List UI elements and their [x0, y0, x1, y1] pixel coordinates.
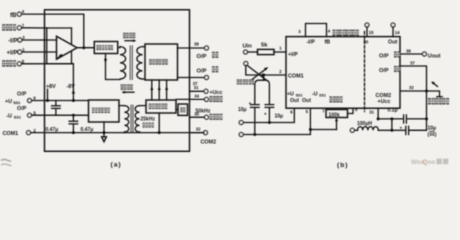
svg-text:14: 14 [395, 30, 400, 35]
wire modulator bottom to signal transformer primary bottom [106, 54, 121, 80]
node pin 31 [377, 117, 380, 120]
IC box [286, 37, 400, 109]
svg-text:Out: Out [388, 40, 397, 46]
capacitor C5 0.1u in +Ucc row [378, 115, 426, 123]
svg-text:fB: fB [10, 13, 17, 19]
wire pin6 +Uss rail [32, 100, 89, 102]
svg-text:38: 38 [406, 48, 411, 53]
svg-text:0.1μ: 0.1μ [388, 108, 398, 114]
svg-text:+U: +U [5, 99, 12, 105]
terminal COM2 pin 32 [196, 127, 216, 146]
svg-text:+I/P: +I/P [7, 51, 18, 57]
node pin 32 junction [425, 90, 428, 93]
modulator box (调制器) [94, 42, 117, 54]
wire wiper to -Uss stub [310, 129, 336, 131]
wire oscillator bottom to COM rail [158, 113, 160, 133]
wire adjustment cross diagonal 2 with arrowhead [250, 69, 266, 81]
svg-text:32: 32 [409, 85, 414, 90]
wire pin8 into op-amp surround rect bottom, on to -8V supply drop [21, 64, 73, 101]
ground tick [437, 96, 442, 98]
pot wiper arrow [336, 120, 338, 130]
svg-text:SS1: SS1 [296, 93, 303, 97]
terminal +I/P pin 1 [7, 47, 26, 57]
svg-text:(a): (a) [111, 162, 122, 169]
svg-text:-U: -U [312, 91, 318, 97]
svg-text:fB: fB [325, 40, 331, 46]
node C3 on -Uss row [253, 133, 256, 136]
wire pin 32 to COM2 vertical [400, 90, 427, 92]
svg-text:Uin: Uin [243, 44, 253, 50]
divider box (周) [178, 104, 188, 115]
svg-text:+Ucc: +Ucc [378, 99, 391, 105]
terminal -I/P pin 3 [8, 35, 25, 45]
node C4 on +Uss row [268, 121, 271, 124]
svg-text:oo: oo [428, 159, 436, 166]
resistor R1 5k [258, 43, 275, 55]
label 25kHz clock (25kHz 时钟) [141, 117, 156, 128]
wire demodulator drive 3 with up arrow [166, 80, 168, 100]
wire transformer secondary bottom to demodulator [143, 78, 146, 80]
svg-text:31: 31 [194, 85, 199, 90]
pin 8 wire from pot right [348, 108, 354, 113]
terminal O/P -Uss1 pin 5 [6, 106, 36, 120]
wire resistor to pin 1 [274, 51, 286, 53]
wire -I/P to op-amp inverting input [22, 39, 57, 41]
svg-text:+Ucc: +Ucc [210, 90, 223, 96]
svg-text:34: 34 [194, 94, 199, 99]
label O/P high (O/P 高) [197, 52, 219, 60]
svg-text:+: + [249, 101, 252, 106]
node -8V drop on +Uss rail [72, 99, 75, 102]
svg-text:COM1: COM1 [288, 73, 304, 79]
inductor L1 100uH [354, 127, 392, 131]
ground arrow under regulator [102, 137, 107, 142]
terminal In pin 15 [364, 23, 375, 46]
output ground stub [427, 91, 440, 97]
label input terminal (输入端) [237, 79, 254, 84]
svg-text:-8V: -8V [67, 84, 76, 90]
node cap C2 on COM1 rail [72, 131, 75, 134]
wire +Uss row to pin 6 [243, 108, 294, 122]
svg-text:O/P: O/P [17, 92, 27, 98]
label O/P high inside IC (O/P 高) [379, 51, 400, 59]
node COM1 junction [262, 73, 265, 76]
svg-text:Uout: Uout [428, 53, 441, 59]
node connector bottom [390, 129, 393, 132]
wire pin7 into op-amp surround rect top [21, 27, 46, 29]
svg-text:15: 15 [369, 30, 374, 35]
svg-text:O/P: O/P [379, 68, 389, 74]
svg-text:32: 32 [196, 127, 201, 132]
svg-text:10μ: 10μ [238, 107, 247, 113]
label signal (信号) with right arrow [123, 33, 136, 42]
svg-text:-U: -U [6, 114, 12, 120]
wire clock pin 35 [190, 116, 205, 118]
label zero adjust (调零) inside IC [330, 96, 343, 102]
op-amp output wire to modulator [77, 47, 94, 49]
scan artifact bottom-left [1, 159, 11, 161]
svg-text:COM2: COM2 [376, 93, 392, 99]
wire COM1 down to cap bridge [263, 75, 265, 80]
arrowhead down on modulator bottom wire [104, 59, 107, 63]
svg-text:SS1: SS1 [13, 101, 20, 105]
terminal O/P +Uss1 pin 6 [5, 92, 36, 106]
terminal clock pin 34 (时钟) [194, 94, 222, 102]
label O/P low (O/P 低) [197, 66, 219, 74]
node feedback junction at op-amp output [82, 46, 85, 49]
svg-text:10μ: 10μ [428, 125, 437, 131]
wire demodulator to O/P low pin 37 [178, 77, 205, 79]
label output ground (输出地) [428, 98, 449, 104]
svg-text:35: 35 [194, 111, 199, 116]
svg-text:-I/P: -I/P [307, 40, 316, 46]
wire +I/P to op-amp non-inverting input [22, 51, 57, 53]
svg-text:31: 31 [369, 109, 374, 114]
voltage regulator box (稳压器) [89, 100, 120, 122]
node +8V on +Uss rail [46, 99, 49, 102]
svg-text:-I/P: -I/P [8, 39, 17, 45]
node oscillator common [158, 131, 161, 134]
wire modulator right to signal transformer primary top [118, 47, 120, 49]
wire Uin to resistor [248, 51, 258, 53]
wire pin 37 to COM2 vertical [400, 66, 427, 130]
wire -Uss row to pin 5 [243, 108, 310, 134]
terminal Uout [422, 52, 440, 59]
outer case box of isolation amplifier [45, 10, 190, 152]
offset null diagonal arrow [57, 55, 61, 59]
terminal +Ucc pin 31 [194, 85, 223, 96]
terminal COM1 pin 2 [3, 128, 37, 137]
arrow from output ground label [433, 83, 438, 87]
svg-text:O/P: O/P [197, 54, 207, 60]
svg-text:0.47μ: 0.47μ [46, 127, 59, 133]
op-amp offset surround rectangle [47, 28, 72, 64]
svg-text:COM2: COM2 [201, 140, 217, 146]
svg-text:+I/P: +I/P [288, 52, 298, 58]
wire +8V stub [47, 89, 49, 100]
svg-text:SS1: SS1 [319, 93, 326, 97]
terminal isolated +Uss output [239, 121, 243, 125]
demodulator box (解调器) [145, 44, 178, 80]
wire power transformer secondary top to oscillator [140, 105, 147, 107]
potentiometer 100k box [326, 110, 348, 119]
svg-text:(b): (b) [337, 162, 348, 169]
svg-text:0.47μ: 0.47μ [81, 127, 94, 133]
svg-text:5k: 5k [261, 43, 268, 49]
label power (电源) with left arrow [121, 84, 134, 93]
wire demodulator drive 2 with up arrow [158, 80, 160, 100]
terminal isolated -Uss output [239, 133, 243, 137]
svg-text:25kHz: 25kHz [141, 117, 156, 123]
node cap junction on -Uss rail [72, 114, 75, 117]
wire pin5 -Uss rail [32, 114, 89, 116]
node wiper junction [309, 128, 312, 131]
svg-text:O/P: O/P [197, 68, 207, 74]
wire parallel row connector [391, 119, 393, 130]
value label 10u tantalum [428, 125, 437, 138]
power transformer T2 windings and core [124, 105, 139, 132]
capacitor C4 10u plates [265, 105, 274, 123]
svg-text:10μ: 10μ [275, 114, 284, 120]
svg-text:Out: Out [302, 98, 311, 104]
terminal clock pin 35 (时钟) [194, 111, 222, 119]
pin 7 stub to pot [327, 108, 329, 109]
wire fB pin4 to feedback node [21, 14, 84, 48]
node regulator common on COM1 rail [103, 131, 106, 134]
svg-text:38: 38 [194, 42, 199, 47]
wire power transformer secondary bottom to rail [139, 131, 141, 134]
capacitor C1 0.47u between rails [52, 101, 61, 116]
label isolation barrier (隔离屏障) [333, 30, 359, 36]
capacitor C6 10u plates [392, 126, 427, 134]
wire pin 38 to Uout [400, 53, 422, 55]
svg-text:COM1: COM1 [3, 131, 19, 137]
wire clock pin 34 [176, 98, 205, 100]
svg-text:SS1: SS1 [14, 116, 21, 120]
wire +Ucc pin 31 [190, 90, 205, 92]
op-amp U1 input amplifier [57, 36, 78, 59]
terminal Uin [243, 44, 253, 54]
wire input common L-path to pin 2 [246, 66, 286, 76]
terminal O/P high pin 38 [194, 42, 209, 50]
svg-text:Out: Out [290, 98, 299, 104]
oscillator box (振荡器) [146, 100, 176, 113]
terminal supply input [350, 128, 354, 132]
pin 31 stub down [377, 108, 379, 119]
node offset null [60, 55, 62, 57]
capacitor C3 10u plates [251, 105, 260, 135]
svg-text:+U: +U [287, 91, 294, 97]
svg-text:O/P: O/P [379, 54, 389, 60]
svg-text:O/P: O/P [17, 106, 27, 112]
wire demodulator drive 1 with up arrow [151, 80, 153, 100]
wire COM1 rail across bottom [31, 132, 205, 134]
signal transformer T1 windings and core [120, 46, 143, 80]
terminal O/P low pin 37 [193, 76, 209, 87]
wire transformer secondary top to demodulator [143, 46, 146, 48]
node COM2 vertical top cap row [425, 117, 428, 120]
isolation barrier dashed line [364, 32, 366, 112]
terminal zero-adjust pin 7 (调零) [2, 23, 25, 31]
terminal fB pin 4 [10, 9, 25, 19]
svg-text:37: 37 [410, 60, 415, 65]
jumper pins 3-4 [306, 24, 327, 37]
capacitor C2 0.47u to COM1 rail [69, 115, 78, 132]
label O/P low inside IC (O/P 低) [379, 66, 400, 74]
labels +Uss1 / -Uss1 Out Out inside IC [287, 91, 326, 104]
wire demodulator to O/P high pin 38 [178, 47, 205, 49]
wire cap bridge arch [255, 80, 270, 104]
svg-text:In: In [364, 40, 369, 46]
svg-text:100k: 100k [329, 112, 340, 118]
wire COM2 pin 32 [190, 132, 204, 134]
wire regulator to analog common arrow [103, 122, 105, 137]
arrowhead supply up-arrow on -8V drop [72, 89, 75, 93]
wire oscillator to divider [176, 109, 178, 111]
terminal zero-adjust pin 8 (调零) [2, 59, 25, 67]
svg-text:+: + [264, 112, 267, 117]
wire adjustment cross diagonal 1 [248, 66, 266, 80]
wire power transformer primary bottom to COM1 rail [123, 131, 125, 134]
wire regulator to power transformer primary top [119, 105, 124, 107]
svg-text:100μH: 100μH [357, 121, 372, 127]
terminal input common [244, 62, 248, 66]
node cap row junction left [390, 117, 393, 120]
terminal Out pin 14 [388, 23, 400, 46]
